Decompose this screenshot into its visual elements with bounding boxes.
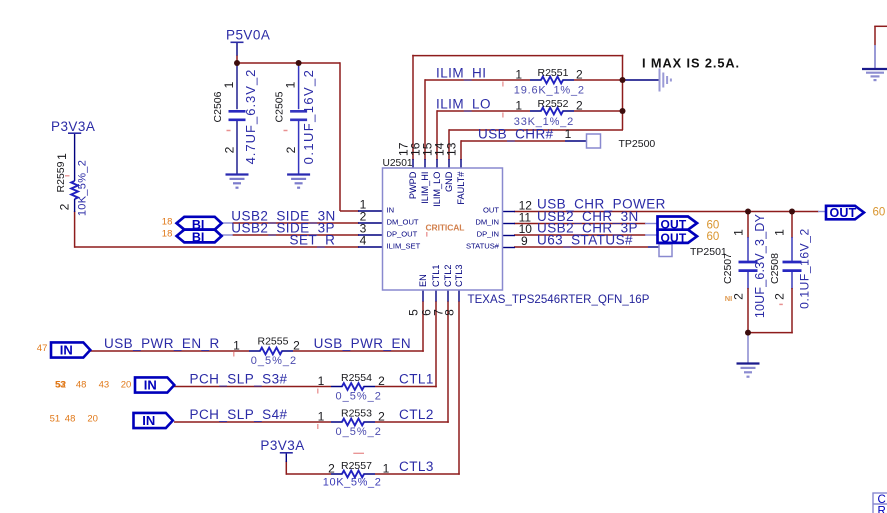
svg-text:DP_OUT: DP_OUT [387,230,418,239]
svg-text:IN: IN [144,377,157,392]
svg-text:R: R [878,506,886,513]
svg-text:1: 1 [284,81,298,88]
svg-text:GND: GND [444,171,454,192]
svg-text:TP2500: TP2500 [619,138,656,150]
svg-text:0_5%_2: 0_5%_2 [251,355,297,367]
svg-text:19.6K_1%_2: 19.6K_1%_2 [514,84,585,96]
svg-text:2: 2 [58,203,72,210]
svg-text:IN: IN [387,206,395,215]
svg-text:NI: NI [725,294,733,303]
svg-text:OUT: OUT [830,206,857,220]
svg-text:C2507: C2507 [722,253,734,284]
svg-text:ILIM_LO: ILIM_LO [432,172,442,207]
svg-text:1: 1 [773,229,787,236]
svg-text:ILIM_HI: ILIM_HI [420,172,430,204]
svg-text:18: 18 [162,217,173,228]
svg-text:47: 47 [37,343,48,354]
svg-text:5: 5 [407,309,421,316]
svg-text:2: 2 [732,293,746,300]
svg-text:DM_OUT: DM_OUT [387,218,419,227]
svg-text:U2501: U2501 [383,158,413,169]
svg-text:2: 2 [378,409,385,423]
svg-text:48: 48 [65,414,76,425]
svg-text:51: 51 [50,414,61,425]
svg-text:2: 2 [378,374,385,388]
svg-text:20: 20 [121,380,132,391]
svg-text:2: 2 [773,293,787,300]
svg-text:CTL3: CTL3 [454,265,464,287]
svg-text:R2557: R2557 [341,460,372,472]
svg-text:OUT: OUT [661,231,687,245]
svg-text:STATUS#: STATUS# [466,242,500,251]
svg-text:CTL1: CTL1 [431,265,441,287]
svg-text:CTL2: CTL2 [443,265,453,287]
svg-text:CTL1: CTL1 [399,372,434,387]
svg-text:1: 1 [222,81,236,88]
svg-text:SET_R: SET_R [290,233,336,248]
svg-text:IN: IN [60,342,73,357]
svg-text:U63_STATUS#: U63_STATUS# [537,233,633,248]
svg-text:USB_CHR#: USB_CHR# [478,127,554,142]
svg-text:P3V3A: P3V3A [260,438,304,453]
svg-text:0.1UF_16V_2: 0.1UF_16V_2 [301,69,316,165]
svg-text:DM_IN: DM_IN [475,218,499,227]
svg-text:ILIM_SET: ILIM_SET [387,242,421,251]
svg-text:ILIM_LO: ILIM_LO [436,97,491,112]
svg-text:10K_5%_2: 10K_5%_2 [77,160,89,216]
svg-text:DP_IN: DP_IN [477,230,499,239]
svg-text:I MAX IS 2.5A.: I MAX IS 2.5A. [642,56,740,71]
svg-text:P5V0A: P5V0A [226,28,270,43]
svg-text:33K_1%_2: 33K_1%_2 [514,116,574,128]
svg-text:1: 1 [565,127,572,141]
svg-text:18: 18 [162,229,173,240]
svg-text:PCH_SLP_S3#: PCH_SLP_S3# [190,372,288,387]
svg-text:CRITICAL: CRITICAL [426,223,465,233]
svg-text:48: 48 [76,380,87,391]
svg-text:C2505: C2505 [273,91,285,122]
svg-text:R2553: R2553 [341,408,372,420]
svg-text:10K_5%_2: 10K_5%_2 [323,477,382,489]
svg-text:2: 2 [576,68,583,82]
svg-text:43: 43 [99,380,110,391]
svg-text:1: 1 [515,99,522,113]
svg-text:TEXAS_TPS2546RTER_QFN_16P: TEXAS_TPS2546RTER_QFN_16P [468,294,650,306]
svg-text:ILIM_HI: ILIM_HI [436,66,486,81]
svg-text:0_5%_2: 0_5%_2 [336,426,382,438]
svg-text:2: 2 [293,339,300,353]
svg-text:C: C [878,494,886,506]
svg-text:4.7UF_6.3V_2: 4.7UF_6.3V_2 [243,69,258,165]
svg-text:0_5%_2: 0_5%_2 [336,390,382,402]
svg-text:1: 1 [233,339,240,353]
svg-text:1: 1 [515,68,522,82]
svg-text:IN: IN [142,413,155,428]
svg-text:PCH_SLP_S4#: PCH_SLP_S4# [190,407,288,422]
svg-text:C2506: C2506 [212,91,224,122]
svg-text:USB_PWR_EN: USB_PWR_EN [314,336,412,351]
svg-text:1: 1 [383,461,390,475]
svg-text:1: 1 [318,409,325,423]
svg-text:FAULT#: FAULT# [456,171,466,205]
svg-text:60: 60 [707,231,720,243]
svg-text:1: 1 [55,153,69,160]
svg-text:USB_PWR_EN_R: USB_PWR_EN_R [104,336,220,351]
svg-text:20: 20 [87,414,98,425]
svg-text:PWPD: PWPD [408,171,418,199]
svg-text:2: 2 [328,461,335,475]
svg-text:9: 9 [521,234,528,248]
svg-text:R2552: R2552 [538,98,569,110]
svg-text:2: 2 [576,99,583,113]
svg-text:R2559: R2559 [55,161,67,192]
svg-text:P3V3A: P3V3A [51,119,95,134]
svg-text:OUT: OUT [483,206,499,215]
svg-text:EN: EN [418,274,428,287]
svg-text:CTL3: CTL3 [399,459,434,474]
svg-text:4: 4 [360,234,367,248]
svg-text:2: 2 [223,146,237,153]
svg-text:C2508: C2508 [769,253,781,284]
svg-text:10UF_6.3V_3_DY: 10UF_6.3V_3_DY [753,213,767,318]
svg-text:R2551: R2551 [538,67,569,79]
svg-text:52: 52 [56,380,67,391]
svg-text:BI: BI [192,231,205,245]
svg-text:2: 2 [284,146,298,153]
svg-text:R2554: R2554 [341,372,372,384]
svg-text:0.1UF_16V_2: 0.1UF_16V_2 [798,228,812,309]
svg-text:R2555: R2555 [258,335,289,347]
svg-text:1: 1 [732,229,746,236]
svg-text:8: 8 [443,309,457,316]
svg-text:1: 1 [318,374,325,388]
svg-text:13: 13 [445,142,459,156]
svg-text:CTL2: CTL2 [399,407,434,422]
svg-text:60: 60 [873,206,886,218]
